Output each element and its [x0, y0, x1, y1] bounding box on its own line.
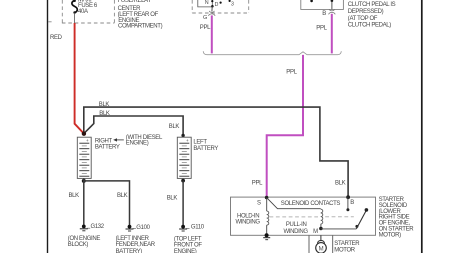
svg-text:BLK: BLK — [69, 193, 80, 199]
svg-text:PPL: PPL — [286, 69, 297, 75]
svg-text:G: G — [203, 15, 207, 21]
clutch switch contacts — [310, 0, 313, 2]
svg-text:BLK: BLK — [99, 102, 110, 108]
ground (solenoid internal) — [263, 237, 270, 239]
connector G — [209, 11, 216, 16]
svg-text:ENGINE): ENGINE) — [174, 249, 197, 253]
svg-text:40A: 40A — [78, 9, 88, 15]
svg-text:G110: G110 — [191, 224, 205, 230]
svg-text:WINDING: WINDING — [283, 229, 308, 235]
fuse block location label — [118, 0, 163, 30]
wire PPL from B — [331, 14, 333, 54]
svg-text:B: B — [350, 200, 354, 206]
svg-text:BLK: BLK — [169, 124, 180, 130]
svg-text:D: D — [215, 2, 219, 8]
svg-text:B: B — [322, 11, 326, 17]
fuse value label — [78, 0, 98, 15]
PNP switch position indicator N — [198, 0, 213, 7]
label starter solenoid location — [379, 197, 415, 238]
svg-text:ENGINE): ENGINE) — [126, 141, 149, 147]
mechanical linkage dashed — [270, 216, 354, 218]
wire from PNP contact to connector G — [211, 6, 213, 11]
svg-text:BLK: BLK — [335, 180, 346, 186]
svg-text:G132: G132 — [91, 224, 105, 230]
wire BLK battery junction to left battery — [84, 116, 183, 136]
arrow (with diesel engine) — [113, 138, 124, 141]
contact pivot — [355, 225, 358, 228]
svg-text:CLUTCH PEDAL IS: CLUTCH PEDAL IS — [348, 2, 396, 8]
park/neutral position switch dashed box — [192, 0, 249, 13]
svg-text:BLK: BLK — [167, 195, 178, 201]
svg-text:COMPARTMENT): COMPARTMENT) — [118, 24, 163, 30]
ground G100 — [126, 225, 151, 231]
node left battery negative — [181, 179, 185, 183]
motor connector cap — [318, 240, 325, 243]
connector B — [329, 9, 336, 14]
svg-text:DEPRESSED): DEPRESSED) — [348, 9, 384, 15]
svg-text:MOTOR): MOTOR) — [379, 232, 401, 238]
svg-text:(AT TOP OF: (AT TOP OF — [348, 16, 378, 22]
starter motor M1 — [316, 243, 327, 253]
svg-text:WINDING: WINDING — [235, 220, 260, 226]
starter solenoid box U1 — [231, 197, 376, 235]
svg-text:S: S — [257, 200, 261, 206]
wire M terminal to starter motor — [320, 235, 322, 241]
svg-text:CLUTCH PEDAL): CLUTCH PEDAL) — [348, 23, 391, 29]
wire PPL from G — [211, 15, 213, 53]
wire battery negative to G100 — [84, 181, 130, 225]
PNP contacts D 3 — [211, 0, 231, 7]
svg-text:FUSE 6: FUSE 6 — [78, 3, 98, 9]
svg-text:(ON ENGINE: (ON ENGINE — [68, 236, 101, 242]
fuse F6 (maxi fuse 6 40A) — [72, 0, 77, 23]
svg-text:MOTOR: MOTOR — [334, 247, 355, 253]
node right battery negative — [82, 179, 86, 183]
svg-text:3: 3 — [231, 1, 234, 7]
svg-text:BATTERY: BATTERY — [95, 144, 120, 150]
wire RED fuse to battery junction — [75, 23, 84, 134]
node S terminal — [265, 196, 269, 200]
svg-text:PULL-IN: PULL-IN — [286, 222, 307, 228]
svg-text:FRONT OF: FRONT OF — [174, 243, 202, 249]
wire BLK battery junction to solenoid B — [84, 107, 348, 197]
svg-text:LEFT: LEFT — [193, 139, 207, 145]
clutch pedal position switch box — [301, 0, 344, 9]
svg-text:SOLENOID CONTACTS: SOLENOID CONTACTS — [281, 201, 341, 207]
svg-text:BATTERY: BATTERY — [193, 146, 218, 152]
svg-text:G100: G100 — [136, 225, 150, 231]
starter motor bracket — [308, 236, 310, 253]
svg-text:BLOCK): BLOCK) — [68, 242, 89, 248]
svg-text:FENDER,NEAR: FENDER,NEAR — [116, 242, 156, 248]
svg-text:RED: RED — [50, 35, 63, 41]
svg-text:PPL: PPL — [200, 25, 211, 31]
svg-text:FUSE/RELAY: FUSE/RELAY — [118, 0, 152, 4]
svg-text:BATTERY): BATTERY) — [116, 249, 143, 253]
left page border — [47, 0, 49, 253]
wire PPL splice to solenoid S — [267, 55, 303, 197]
svg-text:BLK: BLK — [99, 111, 110, 117]
node M terminal — [319, 227, 323, 231]
wire M to contact pivot — [321, 228, 357, 230]
clutch switch location label — [348, 2, 396, 28]
left battery — [177, 137, 191, 178]
pull-in winding coil — [321, 209, 323, 224]
hold-in winding coil — [266, 198, 268, 211]
splice brace joining PPL wires — [203, 51, 341, 55]
right page border — [421, 0, 423, 253]
ground G132 — [80, 224, 105, 231]
svg-text:N: N — [205, 0, 209, 6]
wire right battery to G132 — [83, 178, 85, 224]
node B terminal — [346, 195, 350, 199]
svg-text:STARTER: STARTER — [334, 241, 360, 247]
node left battery terminal — [181, 134, 184, 137]
wire S to pull-in winding — [267, 198, 321, 209]
svg-text:PPL: PPL — [316, 26, 327, 32]
svg-text:PPL: PPL — [252, 180, 263, 186]
svg-text:M: M — [313, 229, 318, 235]
svg-text:M: M — [319, 246, 324, 252]
right battery — [77, 137, 91, 178]
wire B to contact — [347, 197, 349, 209]
svg-text:BLK: BLK — [117, 193, 128, 199]
ground G110 — [179, 224, 205, 231]
wire left battery to G110 — [182, 181, 184, 225]
switch arm — [356, 210, 366, 229]
fuse block dashed box — [48, 0, 114, 23]
node hold-in ground — [265, 233, 269, 237]
node battery junction — [82, 132, 86, 136]
